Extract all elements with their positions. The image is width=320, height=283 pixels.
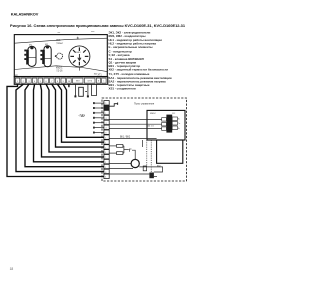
svg-text:24: 24 — [105, 133, 107, 135]
capacitor C circle — [57, 53, 63, 59]
svg-text:Рисунок 16. Схема электрическа: Рисунок 16. Схема электрическая принципи… — [10, 23, 186, 28]
svg-text:3: 3 — [105, 138, 106, 140]
svg-text:21: 21 — [105, 103, 107, 105]
top edge reference marks — [58, 31, 95, 32]
ground tick on top wire — [77, 37, 79, 40]
svg-text:▽опыт: ▽опыт — [56, 42, 64, 45]
svg-text:Е - нагревательные элементы: Е - нагревательные элементы — [109, 45, 153, 49]
display box B — [157, 140, 183, 163]
resistor R2 — [117, 152, 123, 155]
svg-text:18: 18 — [10, 267, 14, 271]
svg-text:КМ5С: КМ5С — [150, 113, 156, 115]
svg-text:СЕТЬ: СЕТЬ — [87, 81, 93, 83]
resistor leads — [109, 146, 135, 169]
svg-text:2.1: 2.1 — [105, 118, 107, 120]
switch block — [149, 173, 154, 179]
svg-text:ХШ 1.5: ХШ 1.5 — [147, 126, 155, 128]
wire to box B — [109, 138, 156, 140]
svg-text:ВК1 / ВК2: ВК1 / ВК2 — [120, 136, 131, 138]
remote control dashed enclosure — [102, 98, 187, 181]
svg-text:4: 4 — [105, 142, 106, 144]
internal bottom bus wire — [14, 66, 107, 72]
internal top bus wire — [14, 38, 107, 43]
svg-text:1.1: 1.1 — [105, 128, 107, 130]
svg-text:6: 6 — [105, 152, 106, 154]
motor M2 — [40, 46, 51, 67]
svg-text:9: 9 — [105, 167, 106, 169]
resistor R1 — [117, 145, 123, 148]
svg-text:KALASHNIKOV: KALASHNIKOV — [11, 12, 39, 17]
capacitor sub-circuit under strip — [75, 84, 96, 96]
hook wire from pin 2 — [109, 104, 118, 107]
svg-text:2.2: 2.2 — [105, 123, 107, 125]
nested harness wires from terminals to connector column — [7, 84, 104, 176]
board connector pin block — [162, 115, 178, 133]
svg-text:Тм: Тм — [178, 123, 181, 125]
main connector column X1 — [104, 101, 109, 179]
svg-text:Вн: Вн — [178, 119, 180, 121]
svg-text:ХК2 - защитный термостат безоп: ХК2 - защитный термостат безопасности — [109, 68, 169, 72]
thermostat dial BK1 — [69, 46, 90, 67]
svg-text:7: 7 — [105, 157, 106, 159]
dashed mech links from board — [147, 140, 151, 173]
svg-text:ВКЛ: ВКЛ — [76, 52, 81, 54]
legend text block — [109, 31, 172, 91]
svg-text:Пульт управления: Пульт управления — [134, 103, 155, 106]
motor M1 — [24, 46, 36, 66]
stub wires to remote cable — [94, 103, 104, 132]
svg-text:1: 1 — [105, 113, 106, 115]
svg-text:ХS1 - соединители: ХS1 - соединители — [109, 87, 136, 91]
svg-text:10: 10 — [105, 172, 107, 174]
svg-text:Вк: Вк — [178, 128, 180, 130]
motor M3 — [131, 159, 139, 167]
svg-text:▽2-16: ▽2-16 — [56, 69, 63, 72]
thermal contact — [129, 149, 131, 152]
elbow wire motor to switch — [139, 167, 162, 172]
stub below board — [141, 140, 143, 147]
lower bus to switch — [109, 173, 149, 175]
pointer — [78, 54, 81, 60]
fuse component — [143, 166, 146, 171]
svg-text:L: L — [103, 81, 104, 83]
svg-text:11: 11 — [105, 177, 107, 179]
svg-text:КМ2-1: КМ2-1 — [56, 68, 63, 70]
terminal strip XT — [14, 77, 108, 85]
svg-text:ХS2: ХS2 — [172, 113, 175, 115]
curtain unit enclosure box — [14, 35, 107, 77]
wires from connector to board connector XS2 — [109, 119, 161, 128]
svg-text:- ПДУ: - ПДУ — [78, 114, 85, 118]
control board box A — [147, 110, 185, 140]
svg-text:КМ1: КМ1 — [56, 40, 61, 42]
svg-text:8: 8 — [105, 162, 106, 164]
svg-text:5: 5 — [105, 147, 106, 149]
